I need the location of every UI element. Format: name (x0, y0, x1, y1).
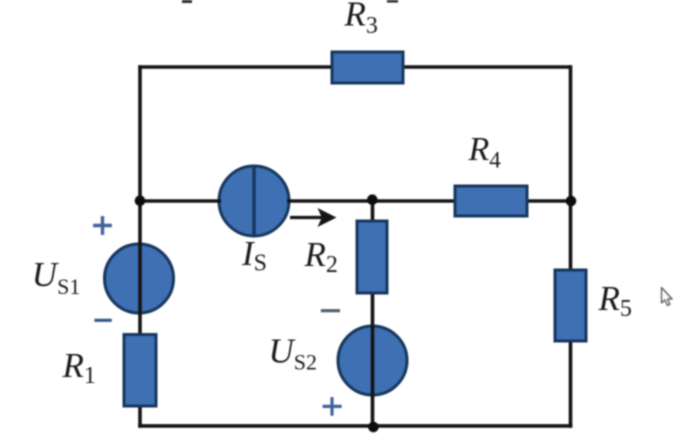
wire bottom (138, 424, 572, 428)
wire left (138, 65, 142, 428)
voltage source US2 (338, 326, 407, 395)
wire top (138, 65, 571, 69)
text fragment top left (182, 0, 192, 3)
node junction middle (367, 194, 378, 205)
svg-text:R2: R2 (304, 235, 338, 278)
svg-text:R3: R3 (344, 0, 378, 39)
wire middle left (140, 199, 221, 203)
node junction left (135, 195, 146, 206)
node junction bottom (368, 422, 379, 433)
resistor R3 (332, 52, 403, 83)
wire middle branch (371, 199, 375, 427)
current direction arrow (290, 208, 337, 227)
text fragment top right (387, 0, 398, 3)
resistor R2 (357, 221, 387, 293)
polarity plus US1 (93, 216, 112, 235)
svg-text:US2: US2 (269, 332, 318, 375)
polarity plus US2 (323, 397, 342, 416)
node junction right (566, 196, 577, 207)
polarity minus US1 (94, 319, 111, 322)
polarity minus US2 (321, 309, 340, 312)
current source IS (219, 166, 289, 236)
svg-text:US1: US1 (32, 255, 81, 299)
current source IS diameter line (252, 167, 255, 236)
resistor R5 (555, 270, 586, 341)
svg-text:R1: R1 (62, 346, 96, 389)
resistor R1 (124, 335, 156, 407)
wire right (569, 65, 573, 428)
svg-text:R5: R5 (598, 279, 632, 322)
svg-text:IS: IS (241, 234, 267, 277)
mouse cursor (662, 288, 673, 306)
wire middle right (287, 199, 571, 203)
voltage source US1 (105, 244, 174, 313)
resistor R4 (455, 186, 527, 216)
svg-text:R4: R4 (468, 131, 502, 173)
